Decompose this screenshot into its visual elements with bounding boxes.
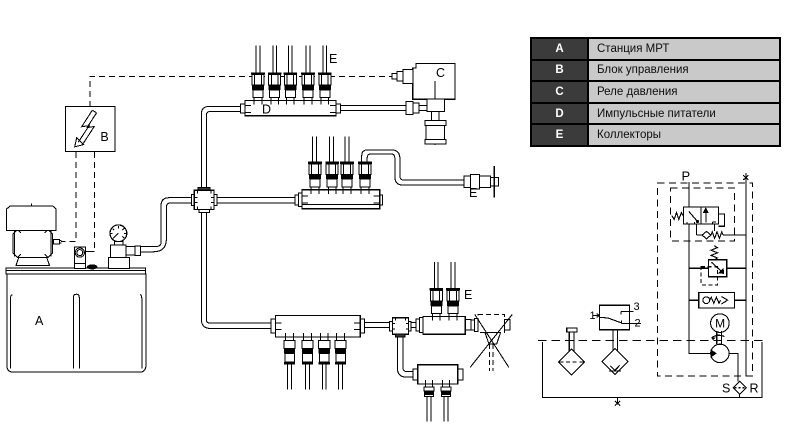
connector on motor (dashed line terminal) — [54, 239, 62, 244]
outlet tubes below lower manifold — [427, 396, 448, 421]
outlet tubes above middle feeders — [313, 137, 349, 162]
check valve with spring (diamond) — [702, 231, 711, 238]
relief valve V2 — [689, 246, 746, 285]
wire: main pressure line P down to pump — [689, 182, 711, 353]
level switch SQ — [590, 301, 641, 351]
collector manifold E (2 feeders up) — [416, 316, 471, 334]
svg-text:M: M — [715, 317, 725, 331]
suction strainer S/R — [722, 381, 759, 397]
wire: pipe bottom-left manifold to T junction — [365, 323, 390, 328]
lower manifold (2 feeders down) — [413, 365, 463, 384]
svg-text:E: E — [469, 186, 477, 200]
legend table — [530, 37, 781, 147]
outlet tubes above D feeders — [256, 45, 327, 72]
svg-text:E: E — [329, 52, 337, 66]
pump shaft — [712, 331, 725, 344]
T junction — [390, 318, 412, 337]
wire: valve bypass to return rail — [697, 224, 746, 235]
svg-text:C: C — [436, 66, 445, 80]
outlet tubes above E collector feeders — [434, 262, 455, 288]
wire: return rail (x line) — [745, 173, 747, 376]
motor M1 — [711, 314, 730, 333]
svg-text:S: S — [722, 381, 730, 395]
feeders under lower manifold — [424, 380, 434, 397]
svg-text:2: 2 — [635, 318, 641, 330]
pilot tab — [718, 214, 724, 226]
svg-text:1: 1 — [590, 310, 596, 322]
impulse feeders under bottom-left manifold — [284, 333, 295, 365]
wire: pipe cross to D manifold (up then right) — [201, 107, 240, 188]
pressure gauge — [110, 225, 127, 245]
wire: pipe D right port to relay C fitting — [341, 106, 406, 111]
pillar fitting with sensor eye on tank top — [74, 247, 94, 269]
pump unit enclosure (dashed) — [658, 183, 753, 376]
filler cap oval — [88, 265, 97, 269]
wire: pipe cross down to bottom-left manifold — [201, 212, 271, 328]
collector E fitting (middle right) — [464, 166, 498, 200]
svg-text:E: E — [464, 288, 472, 302]
svg-text:B: B — [100, 130, 108, 144]
impulse feeders on E collector manifold — [429, 288, 443, 320]
outlet tubes below bottom-left feeders — [288, 364, 343, 390]
svg-text:A: A — [35, 314, 44, 328]
wire: pipe cross to middle manifold — [217, 198, 295, 203]
impulse feeders on middle manifold — [308, 162, 322, 194]
wire: pipe T junction to E collector manifold — [411, 323, 416, 328]
svg-text:3: 3 — [634, 301, 640, 313]
pump P1 — [711, 344, 738, 381]
bottom-left manifold bar — [271, 316, 364, 337]
pressure relay C — [392, 63, 455, 144]
pump station A : tank — [6, 268, 146, 372]
future expansion stub (crossed out box) — [470, 315, 512, 372]
x mark top right — [743, 175, 748, 180]
spring of valve — [672, 213, 684, 220]
wire: S-bend pipe from 4th feeder to collector E fitting — [362, 150, 464, 185]
valve subassembly enclosure (dashed) — [671, 188, 735, 241]
wire: pressure pipe pump outlet to cross junction — [141, 198, 192, 252]
reservoir boundary (dashed) — [538, 340, 763, 342]
x mark bottom — [615, 397, 620, 405]
pump outlet block under gauge — [108, 245, 140, 268]
svg-text:P: P — [682, 169, 691, 184]
cross junction — [191, 188, 217, 213]
svg-text:R: R — [750, 381, 759, 395]
impulse feeders on D — [251, 72, 265, 104]
wire: pipe T junction down to lower manifold — [397, 337, 413, 377]
wire: dashed control line B to overhead run and to pressure relay C — [61, 76, 397, 251]
motor of station A — [7, 203, 57, 265]
middle manifold bar — [295, 190, 383, 209]
control block B — [65, 106, 115, 151]
svg-text:D: D — [262, 103, 271, 117]
manifold D bar — [241, 101, 341, 117]
level gauge diamond — [559, 328, 585, 375]
breather filter diamond — [602, 349, 628, 375]
reservoir outline — [542, 342, 762, 398]
directional valve U1 — [672, 207, 725, 226]
bypass check valve block — [689, 293, 746, 308]
